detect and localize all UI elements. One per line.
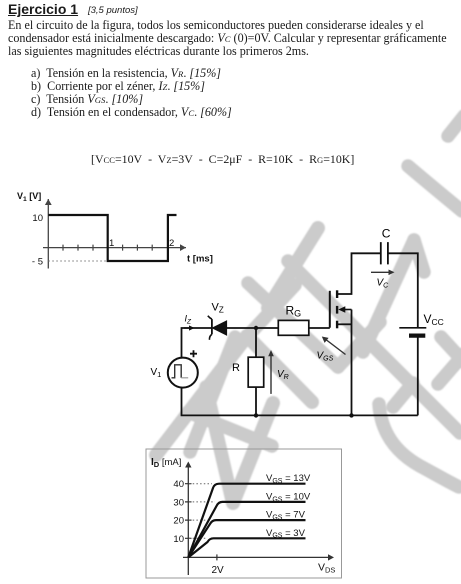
svg-text:VGS = 10V: VGS = 10V: [266, 492, 311, 504]
wire: V1 top to zener: [182, 328, 212, 357]
wire: RG to gate: [309, 327, 330, 329]
y axis: [43, 199, 186, 269]
wire: V1 bottom / bottom rail: [182, 388, 418, 416]
voltage arrow VR: [270, 354, 272, 394]
wire: zener to node to RG: [227, 327, 279, 329]
wire: source/body down to rail: [351, 310, 353, 416]
svg-text:20: 20: [173, 516, 184, 527]
wire: C right to VCC rail: [388, 253, 418, 327]
node/junction zener-R-RG: [254, 326, 258, 330]
dotted -5 level: [48, 260, 107, 262]
svg-text:ID [mA]: ID [mA]: [151, 457, 181, 469]
node/junction R bottom on rail: [254, 413, 258, 417]
node/junction MOSFET source on rail: [349, 413, 353, 417]
wire: R bottom down: [255, 387, 257, 415]
svg-text:VGS = 7V: VGS = 7V: [266, 510, 306, 522]
labels: [17, 191, 213, 268]
wire: drain up to C: [337, 253, 381, 294]
labels: [151, 457, 335, 576]
voltage arrow VGS: [325, 339, 346, 355]
zener diode VZ: [213, 321, 227, 335]
svg-text:30: 30: [173, 497, 184, 508]
voltage arrow VC: [371, 271, 391, 273]
curves: [188, 484, 305, 558]
transistor (N-channel MOSFET): [330, 290, 337, 328]
axes: [183, 466, 332, 575]
formula: [91, 153, 354, 166]
wire: source to channel: [337, 323, 351, 325]
circuit schematic: [0, 0, 461, 440]
waveform: [48, 215, 176, 261]
paragraph: [8, 19, 447, 58]
wire: battery bottom to rail: [417, 337, 419, 416]
svg-text:VGS = 13V: VGS = 13V: [266, 473, 311, 485]
svg-text:2V: 2V: [212, 565, 225, 576]
wire: node down to R: [255, 328, 257, 357]
svg-text:VGS = 3V: VGS = 3V: [266, 528, 306, 540]
title: [8, 1, 78, 17]
svg-text:10: 10: [173, 534, 184, 545]
graph frame: [146, 449, 342, 578]
resistor R: [248, 357, 264, 387]
capacitor C: [381, 242, 388, 264]
dotted guides: [189, 484, 215, 539]
battery VCC (DC supply): [399, 327, 426, 329]
resistor RG: [278, 320, 309, 335]
current arrow IZ: [184, 327, 192, 329]
svg-text:40: 40: [173, 479, 184, 490]
y ticks: [185, 484, 217, 561]
svg-text:VDS: VDS: [318, 562, 335, 575]
list: [31, 67, 232, 119]
ticks: [63, 245, 152, 251]
waveform plot: [0, 0, 220, 300]
pulse voltage source V1: [168, 358, 198, 388]
